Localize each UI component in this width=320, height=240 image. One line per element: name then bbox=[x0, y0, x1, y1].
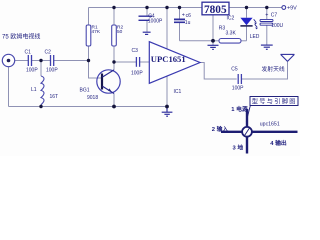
svg-text:47K: 47K bbox=[92, 29, 101, 35]
capacitor c6 electrolytic bbox=[174, 19, 185, 22]
wire bottom rail bbox=[9, 106, 168, 108]
node rail gnd bbox=[165, 105, 169, 109]
pinout upc1651 bbox=[221, 109, 298, 154]
wire R1 bottom lead to base bbox=[89, 46, 102, 78]
svg-text:LED: LED bbox=[250, 34, 260, 40]
svg-text:型号与引脚图: 型号与引脚图 bbox=[252, 98, 297, 106]
wire LED bottom lead bbox=[246, 26, 248, 41]
svg-text:50: 50 bbox=[117, 29, 123, 35]
wire c6 bottom lead bbox=[179, 23, 181, 41]
svg-text:C3: C3 bbox=[132, 48, 139, 54]
op-amp IC1 UPC1651 bbox=[149, 42, 200, 84]
wire c6 to gnd junction bbox=[180, 40, 214, 42]
wire top rail left bbox=[89, 7, 203, 9]
resistor R3 bbox=[219, 39, 241, 44]
svg-text:IC2: IC2 bbox=[227, 15, 235, 21]
wire emitter down bbox=[113, 94, 115, 107]
capacitor C3 bbox=[136, 57, 139, 67]
node collector bbox=[112, 60, 115, 63]
wire collector node to C3 bbox=[114, 61, 136, 63]
node base bbox=[87, 59, 90, 62]
node IC1 rail bbox=[165, 6, 168, 9]
wire collector bbox=[113, 62, 115, 70]
wire C4 top lead bbox=[146, 8, 148, 17]
svg-text:R3: R3 bbox=[219, 26, 226, 32]
wire 7805 gnd pin bbox=[212, 15, 214, 41]
wire IC1 output bbox=[200, 63, 237, 80]
wire C5 to antenna bbox=[242, 62, 288, 80]
wire IC1 power pin bbox=[166, 8, 168, 50]
resistor R2 bbox=[112, 25, 117, 46]
svg-text:16T: 16T bbox=[50, 94, 59, 100]
capacitor C4 bbox=[139, 16, 153, 20]
node gnd junction bbox=[211, 39, 215, 43]
svg-text:100P: 100P bbox=[46, 68, 58, 74]
svg-text:BG1: BG1 bbox=[80, 87, 90, 93]
svg-text:+: + bbox=[182, 12, 185, 18]
wire R3 right lead to LED bbox=[241, 40, 247, 42]
wire C4 bottom lead bbox=[146, 21, 148, 32]
svg-text:C7: C7 bbox=[271, 13, 278, 19]
ground (IC1) bbox=[162, 107, 173, 117]
wire R1 top lead bbox=[88, 8, 90, 26]
resistor R1 bbox=[86, 25, 91, 46]
svg-text:+9V: +9V bbox=[287, 6, 297, 12]
svg-text:upc1651: upc1651 bbox=[260, 121, 280, 127]
svg-text:c6: c6 bbox=[186, 13, 192, 19]
leader line bbox=[246, 106, 250, 122]
node R2 rail bbox=[112, 6, 115, 9]
svg-text:1000P: 1000P bbox=[148, 19, 163, 25]
svg-text:1 电源: 1 电源 bbox=[231, 105, 248, 113]
wire L1 bottom lead bbox=[40, 105, 42, 107]
capacitor C2 bbox=[51, 55, 54, 66]
inductor L1 bbox=[41, 76, 44, 105]
wire gnd stub under junction bbox=[212, 41, 214, 45]
capacitor C5 bbox=[238, 74, 241, 84]
node C4 rail bbox=[145, 6, 148, 9]
ground (7805) bbox=[208, 45, 219, 49]
node L1 bottom bbox=[39, 105, 42, 108]
wire C2 to base node bbox=[54, 60, 89, 62]
antenna bbox=[281, 54, 295, 61]
ground (C7) bbox=[261, 45, 273, 49]
svg-text:L1: L1 bbox=[31, 87, 37, 93]
svg-text:C2: C2 bbox=[45, 50, 52, 56]
wire R2 bottom lead bbox=[113, 46, 115, 62]
svg-text:+: + bbox=[265, 13, 268, 19]
node C7 rail bbox=[265, 6, 268, 9]
node LED rail bbox=[245, 6, 248, 9]
svg-text:3.3K: 3.3K bbox=[226, 31, 237, 37]
wire C1 to C2 bbox=[32, 60, 50, 62]
wire R3 left lead bbox=[213, 40, 219, 42]
svg-text:1u: 1u bbox=[185, 20, 191, 26]
wire top rail right bbox=[229, 7, 283, 9]
svg-text:7805: 7805 bbox=[204, 4, 227, 16]
svg-text:100P: 100P bbox=[26, 68, 38, 74]
transistor Q1 BG1 9018 bbox=[97, 70, 120, 94]
svg-text:100P: 100P bbox=[232, 85, 244, 91]
wire C7 top lead bbox=[266, 8, 268, 20]
wire connector down bbox=[8, 67, 10, 107]
svg-text:UPC1651: UPC1651 bbox=[151, 54, 186, 64]
capacitor C7 electrolytic bbox=[260, 19, 273, 25]
svg-text:C1: C1 bbox=[25, 50, 32, 56]
connector J1 bbox=[2, 54, 14, 66]
wire IC1 ground pin bbox=[166, 74, 168, 106]
wire C3 to IC1 input bbox=[140, 61, 149, 63]
wire c6 top lead bbox=[179, 8, 181, 19]
wire input line bbox=[15, 60, 28, 62]
svg-text:3 地: 3 地 bbox=[233, 143, 244, 151]
capacitor C1 bbox=[28, 55, 31, 66]
terminal +9V bbox=[282, 6, 286, 10]
LED D1 bbox=[240, 18, 257, 30]
svg-text:75 欧姆电视线: 75 欧姆电视线 bbox=[2, 33, 40, 41]
svg-text:100P: 100P bbox=[131, 71, 143, 77]
wire R2 top lead bbox=[113, 8, 115, 26]
svg-text:2 输入: 2 输入 bbox=[212, 125, 229, 133]
node c6 rail bbox=[178, 6, 181, 9]
node emitter bottom bbox=[112, 105, 116, 109]
wire L1 top lead bbox=[40, 61, 42, 77]
wire C7 bottom lead bbox=[266, 25, 268, 44]
svg-text:100U: 100U bbox=[271, 23, 283, 29]
regulator U2 7805 bbox=[202, 2, 229, 15]
svg-text:4 输出: 4 输出 bbox=[270, 139, 287, 147]
svg-text:发射天线: 发射天线 bbox=[262, 65, 285, 73]
node L1 tap bbox=[39, 59, 42, 62]
wire LED top lead bbox=[246, 8, 248, 18]
svg-text:IC1: IC1 bbox=[174, 89, 182, 95]
svg-text:C5: C5 bbox=[231, 67, 238, 73]
pinout diagram box label bbox=[250, 97, 298, 106]
ground (C4) bbox=[143, 32, 151, 34]
svg-text:9018: 9018 bbox=[87, 95, 98, 101]
